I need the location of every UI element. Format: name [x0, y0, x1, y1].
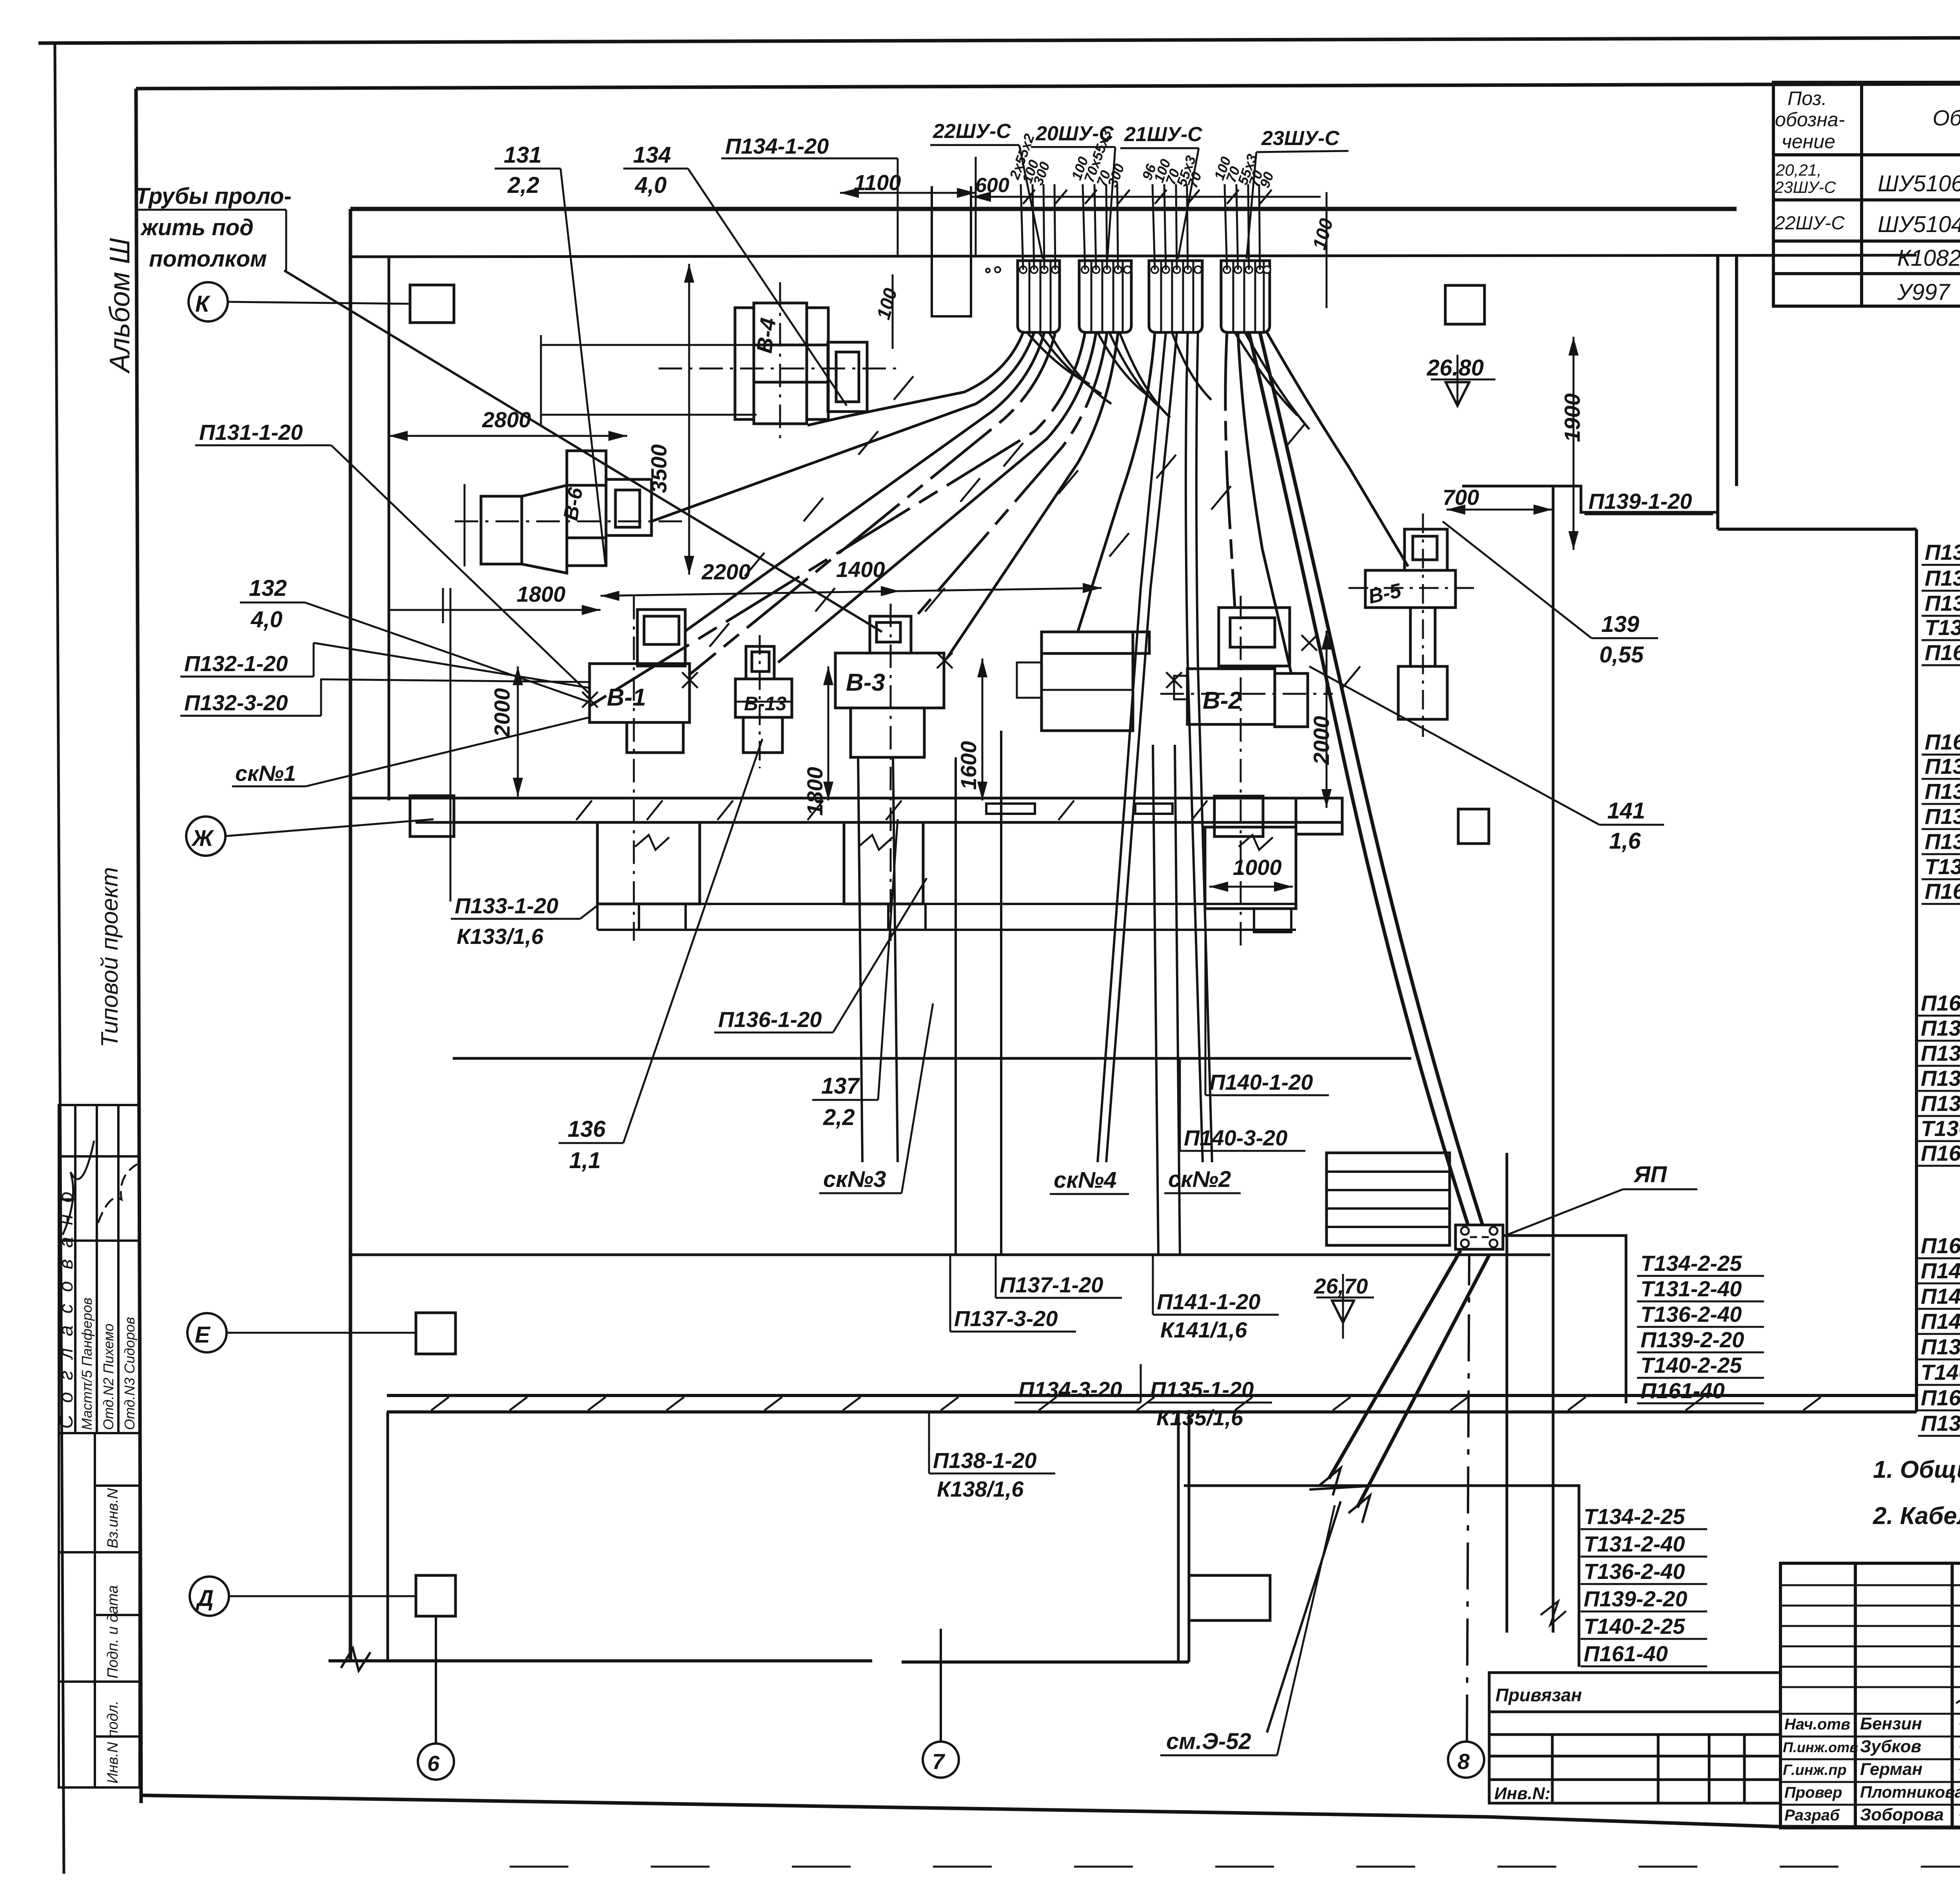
column square row E — [416, 1313, 456, 1354]
unit B-1 foundation — [597, 822, 700, 904]
svg-text:П161-40: П161-40 — [1921, 1385, 1960, 1410]
svg-text:2800: 2800 — [482, 407, 531, 432]
svg-text:П131-1-20: П131-1-20 — [1925, 754, 1960, 778]
svg-text:137: 137 — [821, 1073, 860, 1099]
svg-text:ск№1: ск№1 — [235, 761, 296, 786]
svg-text:700: 700 — [1443, 485, 1479, 510]
fan line to B-6 — [652, 332, 1034, 521]
unit B-3 centerline — [890, 604, 892, 941]
fan line to B-1 left long — [590, 332, 1085, 706]
fan line to B-13 — [778, 332, 1096, 662]
svg-text:П162-40: П162-40 — [1921, 1233, 1960, 1258]
svg-text:П141-1-20: П141-1-20 — [1157, 1289, 1260, 1314]
fan line to central unit — [1078, 332, 1155, 631]
svg-text:Е: Е — [195, 1322, 211, 1348]
svg-text:Т131-2-40: Т131-2-40 — [1925, 854, 1960, 879]
svg-text:1800: 1800 — [802, 767, 827, 816]
PARTS TABLE (top right) — [1773, 82, 1960, 306]
svg-text:22ШУ-С: 22ШУ-С — [933, 120, 1011, 143]
dim witness B-6 — [464, 484, 466, 566]
svg-text:П139-2-20: П139-2-20 — [1641, 1327, 1744, 1352]
fan B-6 outlet box — [606, 479, 652, 535]
title block frame — [1780, 1563, 1960, 1828]
wall: vertical through YaP down — [1506, 1153, 1508, 1633]
wall: right verticals of lower room — [1177, 1412, 1180, 1662]
fan bundle to YaP line 1 — [1249, 332, 1468, 1225]
dimension texts — [482, 170, 1584, 1298]
unit B-2 centerline — [1240, 596, 1242, 953]
svg-text:П162-40: П162-40 — [1921, 1141, 1960, 1165]
wall: step near B-5 room — [1462, 486, 1718, 512]
dim 3500 vertical — [688, 264, 690, 575]
svg-text:потолком: потолком — [149, 246, 267, 272]
column square top-left — [410, 285, 454, 323]
unit B-2 left tab — [1174, 676, 1187, 699]
svg-text:Инв.N подл.: Инв.N подл. — [105, 1700, 121, 1784]
svg-text:П131-1-20: П131-1-20 — [199, 420, 303, 445]
axis circle 6 — [418, 1744, 454, 1780]
wall: right wall of hall upper — [1735, 257, 1738, 486]
wall: lower corridor wall — [350, 1254, 1550, 1256]
svg-text:ШУ5106-03В2: ШУ5106-03В2 — [1878, 171, 1960, 196]
svg-text:Ж: Ж — [191, 826, 214, 851]
svg-text:см.Э-52: см.Э-52 — [1166, 1729, 1251, 1754]
wall: left exterior wall — [349, 209, 352, 1661]
svg-text:23ШУ-С: 23ШУ-С — [1261, 127, 1340, 150]
unit B-5 centerline — [1422, 514, 1424, 737]
fan B-4 body — [754, 303, 807, 424]
fan B-6 centerline — [455, 521, 686, 523]
svg-text:1,1: 1,1 — [569, 1148, 601, 1173]
column block in corridor 1 — [410, 796, 454, 836]
svg-text:В-3: В-3 — [846, 669, 885, 696]
dim 100 left vertical — [892, 274, 894, 349]
dim 1000 — [1209, 886, 1293, 888]
central unit body — [1042, 632, 1133, 731]
wall: ceiling line under top wall — [350, 255, 1916, 257]
svg-text:К133/1,6: К133/1,6 — [457, 924, 544, 949]
svg-text:Т134-2-25: Т134-2-25 — [1925, 615, 1960, 640]
foundation strip double line — [597, 903, 1296, 905]
svg-text:1900: 1900 — [1560, 393, 1584, 442]
dim 100 right vertical — [1326, 192, 1328, 308]
svg-text:П139-2-20: П139-2-20 — [1584, 1586, 1687, 1611]
break marks at wall bottoms — [1541, 1601, 1566, 1625]
axis line 8 — [1467, 1254, 1469, 1742]
svg-text:141: 141 — [1607, 798, 1645, 824]
svg-text:П138-1-20: П138-1-20 — [1921, 1091, 1960, 1116]
svg-text:1000: 1000 — [1233, 855, 1282, 880]
svg-text:136: 136 — [568, 1116, 606, 1142]
axis circle E — [187, 1313, 227, 1352]
unit B-13 body — [735, 679, 792, 717]
svg-text:П134-3-20: П134-3-20 — [1925, 566, 1960, 590]
svg-text:П132-3-20: П132-3-20 — [184, 690, 288, 715]
wall: inner left vertical — [388, 257, 390, 800]
fan line to B-2 suction — [1225, 332, 1235, 607]
fan line to B-2 right box — [1238, 332, 1291, 673]
svg-text:П161-40: П161-40 — [1584, 1641, 1668, 1666]
LEFT MARGIN STRIP — [59, 1105, 140, 1787]
svg-text:4,0: 4,0 — [250, 607, 283, 632]
svg-text:К135/1,6: К135/1,6 — [1156, 1405, 1243, 1430]
svg-text:4,0: 4,0 — [635, 172, 667, 198]
svg-text:Трубы проло-: Трубы проло- — [135, 183, 292, 209]
svg-text:2200: 2200 — [701, 559, 751, 584]
unit B-5 suction — [1405, 529, 1447, 570]
svg-text:ск№3: ск№3 — [823, 1167, 886, 1192]
wall: top exterior wall of vent chamber — [350, 207, 1737, 211]
wall: right step wall vertical — [1716, 255, 1719, 529]
svg-text:Т140-2-25: Т140-2-25 — [1584, 1614, 1685, 1639]
svg-text:Разраб: Разраб — [1784, 1807, 1840, 1824]
svg-text:2000: 2000 — [1309, 716, 1334, 765]
svg-text:П163 -40: П163 -40 — [1921, 991, 1960, 1015]
svg-text:жить под: жить под — [140, 215, 254, 240]
wall: T-piece right end of corridor — [1296, 798, 1342, 834]
axis circle Zh — [186, 817, 225, 856]
axis line 6 — [435, 1616, 437, 1744]
dim 1800 mid vertical — [828, 666, 829, 800]
YaP outgoing double line down-left — [1329, 1250, 1461, 1479]
svg-text:Зоборова: Зоборова — [1860, 1805, 1944, 1824]
column notch 3 — [1135, 804, 1172, 814]
cabinet 22ShU-S — [1018, 261, 1060, 332]
axis line 7 — [940, 1629, 942, 1742]
wall: far right wall — [1915, 529, 1918, 1412]
cabinet dim line with ticks — [1019, 196, 1321, 198]
svg-text:Поз.: Поз. — [1788, 87, 1827, 109]
leader from truby note — [284, 270, 882, 632]
svg-text:П138-1-20: П138-1-20 — [933, 1448, 1036, 1473]
column square top-right — [1445, 285, 1485, 324]
svg-text:Провер: Провер — [1784, 1784, 1842, 1801]
fan B-6 body — [481, 496, 522, 564]
svg-text:Плотникова: Плотникова — [1860, 1783, 1960, 1801]
privyazan box — [1489, 1673, 1780, 1803]
svg-text:Альбом Ш: Альбом Ш — [104, 238, 136, 374]
dim 2000 left vertical — [517, 666, 519, 797]
svg-text:П132-3-20: П132-3-20 — [1925, 779, 1960, 804]
svg-text:1600: 1600 — [956, 741, 981, 790]
fan line to B-3 left — [947, 332, 1118, 659]
svg-text:П140-3-20: П140-3-20 — [1184, 1125, 1287, 1150]
svg-text:2,2: 2,2 — [823, 1105, 855, 1130]
svg-text:Инв.N:: Инв.N: — [1494, 1784, 1550, 1803]
wall hatch ticks corridor — [576, 800, 1207, 820]
svg-text:чение: чение — [1782, 131, 1835, 152]
column notch 2 — [986, 804, 1035, 814]
svg-text:600: 600 — [975, 174, 1009, 197]
unit B-13 suction — [746, 646, 774, 679]
svg-text:В-4: В-4 — [751, 316, 780, 354]
dim 700 — [1446, 509, 1552, 511]
svg-text:П137-1-20: П137-1-20 — [1000, 1272, 1103, 1297]
svg-text:0,55: 0,55 — [1599, 642, 1644, 668]
svg-text:П136-1-20: П136-1-20 — [1921, 1016, 1960, 1040]
svg-text:1100: 1100 — [854, 170, 901, 195]
svg-text:Бензин: Бензин — [1860, 1714, 1922, 1733]
svg-text:21ШУ-С: 21ШУ-С — [1124, 123, 1203, 146]
riser lines above cabinets — [1021, 184, 1260, 270]
svg-text:2,2: 2,2 — [507, 172, 539, 198]
svg-text:2000: 2000 — [490, 688, 514, 737]
axis circle D — [190, 1577, 229, 1616]
svg-text:Т134-2-25: Т134-2-25 — [1641, 1251, 1742, 1276]
group list 22ShU-S — [1925, 540, 1960, 665]
svg-text:1. Общие примечания: 1. Общие примечания — [1873, 1456, 1960, 1483]
wall: bottom exterior wall — [328, 1659, 872, 1662]
svg-text:П140-3-20: П140-3-20 — [1921, 1258, 1960, 1283]
mark 26.70 — [1316, 1297, 1374, 1299]
svg-text:Т140-2-25: Т140-2-25 — [1641, 1353, 1742, 1377]
svg-text:Г.инж.пр: Г.инж.пр — [1783, 1762, 1847, 1778]
unit B-13 centerline — [759, 635, 761, 768]
unit B-5 stem — [1410, 608, 1435, 666]
central unit left tab — [1017, 662, 1042, 698]
svg-text:обозна-: обозна- — [1775, 109, 1845, 131]
dim witness lines B-4 — [541, 344, 780, 346]
svg-text:К1082: К1082 — [1897, 245, 1960, 271]
wall hatch ticks lower wall — [431, 1397, 1821, 1410]
svg-text:У997: У997 — [1897, 279, 1951, 305]
svg-text:П164- 40: П164- 40 — [1925, 729, 1960, 754]
svg-text:П164-40: П164-40 — [1925, 640, 1960, 665]
svg-text:Нач.отв: Нач.отв — [1784, 1716, 1850, 1733]
svg-text:В-2: В-2 — [1203, 687, 1242, 714]
responsible persons rows — [1783, 1714, 1960, 1824]
svg-text:П137-3-20: П137-3-20 — [1921, 1066, 1960, 1091]
cabinet 20ShU-S — [1079, 261, 1131, 332]
svg-text:П132-1-20: П132-1-20 — [184, 651, 288, 676]
unit B-1 centerline — [633, 596, 635, 941]
dim 2200 — [601, 591, 900, 596]
dim 1400 — [900, 588, 1102, 591]
svg-text:Т131-2-40: Т131-2-40 — [1584, 1531, 1685, 1556]
dim 1800 bottom — [389, 609, 601, 611]
svg-text:132: 132 — [249, 575, 287, 601]
svg-text:П135-1-20: П135-1-20 — [1150, 1377, 1254, 1402]
unit B-13 base — [743, 717, 782, 753]
svg-text:П132-1-20: П132-1-20 — [1925, 804, 1960, 829]
fan line to B-4 — [808, 332, 1023, 425]
axis circle 7 — [923, 1742, 959, 1778]
column square mid-right — [1458, 809, 1489, 844]
break marks on bundle — [1319, 1468, 1341, 1495]
column block right — [1214, 796, 1263, 836]
svg-text:П139-1-20: П139-1-20 — [1588, 489, 1692, 514]
wall: mid horizontal wall — [453, 1057, 1411, 1060]
svg-text:П140-1-20: П140-1-20 — [1209, 1070, 1313, 1094]
svg-text:Т131-2-40: Т131-2-40 — [1641, 1276, 1742, 1301]
dim 2000 right vertical — [1326, 631, 1328, 808]
cabinet 21ShU-S — [1149, 261, 1202, 332]
bottom dashed page line — [510, 1866, 1960, 1868]
svg-text:Привязан: Привязан — [1495, 1685, 1582, 1705]
svg-text:Мастπ/5 Панферов: Мастπ/5 Панферов — [79, 1297, 95, 1430]
svg-text:Т136-2-40: Т136-2-40 — [1921, 1116, 1960, 1141]
svg-text:П139-1-20: П139-1-20 — [1921, 1411, 1960, 1435]
svg-text:П133-1-20: П133-1-20 — [455, 893, 558, 918]
svg-text:П133-1-20: П133-1-20 — [1925, 829, 1960, 854]
stairs block — [1327, 1153, 1450, 1245]
unit B-5 base — [1398, 666, 1447, 719]
group list 23ShU-S — [1921, 1233, 1960, 1435]
fan line to B-5 — [1267, 332, 1408, 566]
fan B-4 centerline — [659, 368, 902, 370]
YaP pull box — [1455, 1225, 1503, 1249]
svg-text:20ШУ-С: 20ШУ-С — [1035, 122, 1114, 145]
svg-text:1800: 1800 — [517, 582, 566, 606]
unit B-5 body — [1365, 570, 1455, 608]
break mark on bottom wall — [341, 1648, 370, 1671]
unit B-2 body — [1187, 669, 1275, 724]
fan riser pair to SK2 — [1186, 332, 1203, 1162]
note truby text — [135, 183, 292, 272]
svg-text:П137-1-20: П137-1-20 — [1921, 1041, 1960, 1065]
dim 1900 vertical — [1573, 337, 1575, 550]
fan line to B-1 suction — [685, 332, 1044, 631]
thin line down to sm.E-52 — [1267, 1501, 1341, 1733]
svg-text:8: 8 — [1457, 1749, 1470, 1774]
svg-text:Вз.инв.N: Вз.инв.N — [105, 1488, 121, 1548]
dim 2800 — [389, 435, 627, 437]
svg-text:В-13: В-13 — [744, 693, 787, 715]
dim 1100 — [840, 192, 976, 194]
witness verticals left of cabinets — [970, 186, 972, 316]
svg-text:Т136-2-40: Т136-2-40 — [1584, 1559, 1685, 1584]
conduit verticals center — [955, 757, 957, 1255]
lower strip block — [59, 1433, 140, 1787]
svg-text:П137-3-20: П137-3-20 — [954, 1306, 1058, 1331]
svg-text:П161-40: П161-40 — [1641, 1378, 1725, 1403]
cabinet 23ShU-S — [1221, 261, 1270, 332]
svg-text:Обозначение: Обозначение — [1933, 105, 1960, 130]
svg-text:П134-1-20: П134-1-20 — [1925, 540, 1960, 564]
svg-text:Т140-2-25: Т140-2-25 — [1921, 1360, 1960, 1384]
unit B-2 foundation — [1205, 827, 1296, 909]
group list 21ShU-S — [1921, 991, 1960, 1165]
svg-text:П135-1-20: П135-1-20 — [1925, 591, 1960, 615]
svg-text:1,6: 1,6 — [1609, 828, 1641, 854]
svg-text:П134-1-20: П134-1-20 — [725, 134, 829, 158]
fan B-4 outlet box — [828, 342, 867, 412]
group list 20ShU-S — [1925, 729, 1960, 904]
svg-text:П136-1-20: П136-1-20 — [718, 1007, 822, 1032]
wall: door jamb notch — [1189, 1575, 1270, 1620]
wall: inner vertical right of B-5 — [1552, 486, 1555, 1633]
svg-text:К138/1,6: К138/1,6 — [937, 1477, 1024, 1501]
column square row D — [416, 1575, 456, 1616]
unit B-2 suction box — [1219, 608, 1290, 666]
svg-text:П.инж.отв: П.инж.отв — [1783, 1739, 1858, 1755]
fan bundle to YaP line 2 — [1260, 332, 1483, 1225]
unit B-3 legs — [851, 708, 924, 757]
attachment x-marks — [582, 635, 1317, 708]
list A near YaP — [1641, 1251, 1744, 1403]
svg-text:139: 139 — [1601, 611, 1639, 637]
cabinet labels at top — [933, 120, 1340, 150]
unit B-1 suction box — [637, 610, 685, 666]
axis circle 8 — [1448, 1742, 1484, 1778]
unit B-1 body — [590, 664, 690, 722]
svg-text:6: 6 — [427, 1751, 440, 1776]
svg-text:П163-40: П163-40 — [1925, 879, 1960, 904]
unit B-3 foundation — [844, 822, 923, 904]
unit B-2 right box — [1275, 673, 1308, 727]
svg-text:22ШУ-С: 22ШУ-С — [1774, 213, 1845, 234]
wall: horizontal from YaP to list — [1503, 1236, 1626, 1403]
wall: horizontal to list B — [1184, 1486, 1579, 1667]
mark 26.80 — [1431, 379, 1495, 381]
cabinet internal partitions — [1029, 261, 1264, 332]
wall: inner left vertical lower room — [387, 1412, 389, 1661]
unit B-3 body — [835, 653, 944, 708]
title left grid rows — [1780, 1585, 1960, 1805]
svg-text:26.80: 26.80 — [1426, 355, 1484, 381]
small rotated cable size labels above cabinets — [1006, 127, 1277, 190]
svg-text:Отд.N3 Сидоров: Отд.N3 Сидоров — [122, 1317, 138, 1430]
cable entry dots line — [986, 266, 1270, 273]
svg-text:Т134-2-25: Т134-2-25 — [1584, 1504, 1685, 1529]
fan line to B-1 right — [690, 332, 1055, 674]
top page border — [38, 36, 1960, 43]
dim 600 — [972, 196, 1019, 198]
svg-text:Согласовано: Согласовано — [55, 1180, 77, 1429]
svg-text:Отд.N2 Пихемо: Отд.N2 Пихемо — [100, 1323, 116, 1430]
axis circle K — [189, 282, 228, 321]
svg-text:П139-2-20: П139-2-20 — [1921, 1334, 1960, 1359]
svg-text:20,21,: 20,21, — [1775, 161, 1822, 179]
svg-text:ЯП: ЯП — [1633, 1162, 1667, 1187]
svg-text:ШУ5104-03В2: ШУ5104-03В2 — [1878, 212, 1960, 237]
svg-text:26,70: 26,70 — [1314, 1274, 1368, 1298]
break tick marks on fan lines — [710, 376, 1360, 690]
svg-text:7: 7 — [932, 1749, 946, 1774]
svg-text:Зубков: Зубков — [1860, 1737, 1921, 1756]
unit B-1 legs — [627, 722, 683, 753]
svg-text:ск№2: ск№2 — [1168, 1167, 1231, 1192]
wall: lower double wall upper line — [387, 1394, 1916, 1397]
svg-text:П141-1-20: П141-1-20 — [1921, 1309, 1960, 1334]
wall: lower double wall lower line — [387, 1410, 1916, 1414]
vertical conduit pair to SK3 — [858, 757, 862, 1162]
svg-text:В-1: В-1 — [607, 684, 646, 711]
svg-text:131: 131 — [504, 142, 542, 168]
strip tables: soglasovano block — [59, 1105, 140, 1433]
unit B-3 suction box — [870, 616, 911, 653]
svg-text:Т136-2-40: Т136-2-40 — [1641, 1302, 1742, 1326]
fan riser pair to SK4 — [1098, 332, 1166, 1162]
svg-text:ск№4: ск№4 — [1054, 1167, 1116, 1193]
svg-text:Герман: Герман — [1860, 1760, 1922, 1779]
svg-text:Подп. и дата: Подп. и дата — [105, 1585, 121, 1678]
svg-text:1400: 1400 — [836, 557, 885, 582]
svg-text:Типовой проект: Типовой проект — [96, 867, 123, 1047]
inner frame — [136, 82, 1960, 89]
left page edge line — [55, 44, 64, 1874]
dim 1600 vertical — [982, 659, 984, 800]
svg-text:3500: 3500 — [646, 444, 671, 493]
svg-text:Д: Д — [195, 1586, 214, 1611]
svg-text:2. Кабельный журнал: 2. Кабельный журнал — [1873, 1502, 1960, 1530]
svg-text:К141/1,6: К141/1,6 — [1160, 1317, 1247, 1342]
svg-text:П134-3-20: П134-3-20 — [1018, 1377, 1122, 1402]
list B lower — [1584, 1504, 1687, 1666]
wall: step horizontal — [1718, 528, 1916, 531]
svg-text:К: К — [195, 291, 211, 317]
short stubs below cabinets — [1027, 332, 1090, 384]
